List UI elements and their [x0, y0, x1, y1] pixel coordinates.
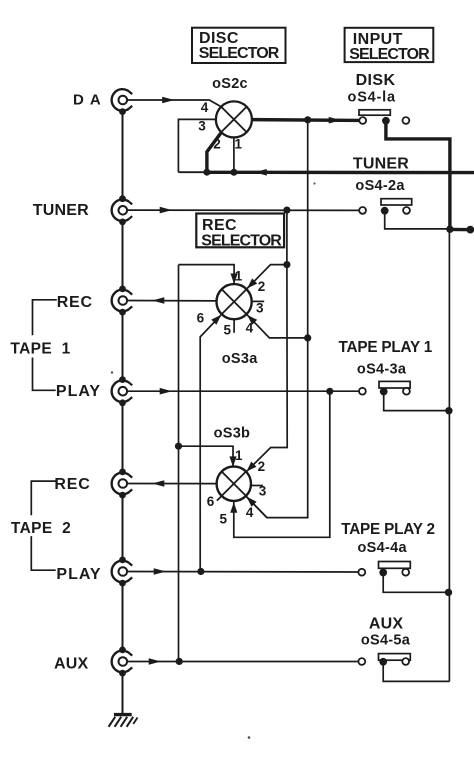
- junction bus / tuner switch + output: [446, 226, 453, 233]
- junction S2c output / disc feed: [304, 116, 311, 123]
- S3b pin 6 stub: [217, 496, 222, 501]
- switch S4-4a (TAPE PLAY 2) input terminal: [358, 569, 365, 576]
- S3a pin 1 wire from left bus: [179, 265, 235, 284]
- speck artifact: [111, 371, 113, 373]
- svg-text:1: 1: [235, 448, 243, 463]
- ground bus wire TUNER to REC(tape1): [122, 222, 124, 289]
- arrow on TUNER return line: [255, 169, 267, 176]
- junction PLAY2 / S3a pin6 branch: [197, 568, 204, 575]
- svg-text:4: 4: [246, 321, 254, 336]
- arrow S3b pin 5 (up into wiper): [230, 502, 237, 513]
- arrow S3a pin 2: [247, 278, 257, 288]
- S3a pin 3 stub: [252, 300, 265, 302]
- wire TUNER return line (bottom of S2c, thick with left arrow): [178, 171, 208, 173]
- S2c pin 1 wire: [233, 137, 235, 172]
- svg-text:REC: REC: [57, 294, 93, 311]
- S3a pin 5 stub: [233, 319, 235, 333]
- junction S2c pin1 / tuner line: [230, 169, 237, 176]
- junction tuner branch / S3a pin2: [283, 261, 290, 268]
- speck artifact: [313, 182, 315, 184]
- svg-text:TUNER: TUNER: [353, 155, 409, 172]
- arrow on S2c output wire: [329, 117, 341, 124]
- switch S4-2a (TUNER) input terminal: [359, 207, 366, 214]
- connector jack TUNER (phono jack, shell to ground bus): [112, 195, 133, 225]
- svg-text:3: 3: [198, 118, 206, 133]
- wire DISK switch to output bus (thick): [386, 122, 450, 229]
- svg-text:SELECTOR: SELECTOR: [349, 46, 430, 63]
- junction tuner wire branch: [283, 207, 290, 214]
- bracket tape2 REC/PLAY (lower): [31, 536, 55, 570]
- svg-text:5: 5: [220, 511, 228, 526]
- svg-text:DISK: DISK: [356, 72, 396, 89]
- switch S4-4a (TAPE PLAY 2) open throw terminal: [402, 569, 409, 576]
- box INPUT SELECTOR: [345, 28, 434, 62]
- switch S4-5a (AUX) input terminal: [358, 658, 365, 665]
- ground bus wire REC to PLAY (tape1): [122, 312, 124, 380]
- wire AUX jack to S4-5a: [127, 661, 359, 663]
- switch S4-3a (TAPE PLAY 1) input terminal: [359, 388, 366, 395]
- rotary switch S2c: [216, 101, 252, 137]
- arrow S3b pin 4: [247, 497, 257, 507]
- rotary switch S3a: [217, 284, 252, 319]
- svg-text:SELECTOR: SELECTOR: [199, 45, 280, 62]
- S3a pin 4 wire from disc feed: [247, 315, 308, 338]
- wire TUNER branch vertical (to S3a pin2 / S3b pin2): [286, 210, 288, 265]
- svg-text:PLAY: PLAY: [56, 566, 101, 583]
- ground bus wire AUX to ground: [122, 673, 124, 714]
- switch S4-5a (AUX) common contact (filled): [379, 658, 387, 666]
- arrow on TUNER wire: [160, 207, 172, 214]
- switch S4-1a (DISK, closed) contact bar: [359, 110, 390, 115]
- connector jack TAPE1 PLAY (phono jack, shell to ground bus): [112, 376, 133, 406]
- S3b pin 4 wire from disc feed: [246, 497, 267, 518]
- svg-text:oS4-la: oS4-la: [348, 89, 396, 105]
- wire S4-2a common to bus: [385, 212, 450, 229]
- svg-text:oS4-5a: oS4-5a: [361, 633, 411, 649]
- svg-text:4: 4: [201, 100, 209, 115]
- wire disc selector output feed (vertical to S3a pin4 / S3b pin4): [246, 120, 307, 518]
- svg-text:2: 2: [258, 279, 266, 294]
- arrow on REC2 wire (toward jack): [152, 480, 164, 487]
- wire REC2 jack to S3b wiper: [127, 483, 217, 485]
- S2c pin 3 wire to left: [178, 119, 216, 172]
- wire S4-5a common to bus: [383, 664, 449, 682]
- svg-text:oS3a: oS3a: [222, 351, 258, 367]
- S3a pin 2 wire from tuner branch: [247, 265, 287, 289]
- svg-text:3: 3: [259, 483, 267, 498]
- junction bus / tape play 2: [445, 589, 452, 596]
- svg-text:oS4-2a: oS4-2a: [355, 178, 405, 194]
- arrow S3b pin 2: [246, 462, 256, 472]
- arrow on PLAY1 wire: [160, 388, 172, 395]
- arrow S3a pin 1 (down into wiper): [231, 274, 238, 285]
- ground symbol: [109, 715, 138, 727]
- svg-text:TAPE 2: TAPE 2: [11, 520, 71, 537]
- switch S4-3a (TAPE PLAY 1) common contact (filled): [380, 388, 388, 396]
- svg-text:1: 1: [235, 136, 243, 151]
- arrow S3a pin 4: [247, 315, 257, 325]
- svg-text:AUX: AUX: [54, 655, 89, 672]
- box REC SELECTOR: [196, 214, 284, 248]
- ground bus wire REC2 to PLAY2: [122, 495, 124, 560]
- box DISC SELECTOR: [192, 28, 286, 63]
- wire S4-3a common to bus: [384, 393, 449, 411]
- wire TUNER jack to S4-2a: [127, 209, 359, 211]
- svg-text:TAPE PLAY 2: TAPE PLAY 2: [341, 521, 435, 538]
- wire PLAY2 jack to S4-4a: [127, 571, 359, 574]
- svg-text:TUNER: TUNER: [33, 202, 89, 219]
- switch S4-2a (TUNER) common contact (filled): [381, 207, 389, 215]
- S3b pin 3 stub: [251, 485, 263, 487]
- svg-text:oS3b: oS3b: [214, 425, 251, 441]
- svg-text:oS4-3a: oS4-3a: [357, 361, 407, 377]
- svg-text:oS4-4a: oS4-4a: [358, 540, 408, 556]
- bracket tape1 REC/PLAY (upper): [33, 300, 57, 335]
- connector jack TAPE2 PLAY (phono jack, shell to ground bus): [112, 557, 133, 587]
- terminal dot on output stub: [466, 226, 474, 234]
- connector jack TAPE2 REC (phono jack, shell to ground bus): [112, 469, 133, 499]
- S2c pin 2 wire (thick): [207, 132, 222, 172]
- arrow on DA wire: [162, 97, 174, 104]
- wire PLAY1 jack to S4-3a: [127, 390, 359, 392]
- wire output stub to right edge (thick): [450, 228, 474, 232]
- svg-text:2: 2: [258, 459, 266, 474]
- bracket tape1 REC/PLAY (lower): [33, 358, 56, 391]
- switch S4-5a (AUX) open throw terminal: [402, 658, 409, 665]
- connector jack DA (phono jack, shell to ground bus): [112, 89, 133, 115]
- wire REC1 jack to S3a wiper: [127, 300, 217, 302]
- switch S4-1a (DISK, closed) common contact (filled): [382, 117, 390, 125]
- svg-text:TAPE PLAY 1: TAPE PLAY 1: [339, 339, 433, 356]
- connector jack AUX (phono jack, shell to ground bus): [112, 647, 133, 677]
- arrow S3a pin 6: [211, 315, 221, 325]
- switch S4-4a (TAPE PLAY 2) contact bar: [379, 562, 411, 569]
- svg-text:oS2c: oS2c: [212, 76, 248, 92]
- bracket tape2 REC/PLAY (upper): [31, 481, 55, 515]
- junction PLAY1 / S3b pin5 branch: [326, 388, 333, 395]
- arrow on REC1 wire (toward jack): [152, 297, 164, 304]
- junction bus / tape play 1: [445, 407, 452, 414]
- wire DA jack to S2c pin 4: [127, 100, 222, 107]
- junction disc feed / S3a pin4: [304, 334, 311, 341]
- S3a pin 6 wire down to PLAY2: [200, 314, 222, 571]
- svg-text:REC: REC: [54, 476, 90, 493]
- svg-text:4: 4: [246, 505, 254, 520]
- svg-text:AUX: AUX: [369, 616, 404, 633]
- S3b pin 1 wire: [179, 446, 234, 467]
- svg-text:1: 1: [235, 269, 243, 284]
- wire S4-4a common to bus: [383, 574, 448, 592]
- switch S4-3a (TAPE PLAY 1) contact bar: [379, 381, 410, 388]
- wire left bus: S3a pin1 down to AUX: [178, 265, 180, 662]
- svg-text:5: 5: [223, 323, 231, 338]
- switch S4-1a (DISK, closed) open throw terminal: [403, 117, 410, 124]
- switch S4-5a (AUX) contact bar: [379, 654, 411, 661]
- connector jack TAPE1 REC (phono jack, shell to ground bus): [112, 286, 133, 316]
- wire S2c output to DISK switch (thick): [252, 118, 360, 122]
- svg-text:6: 6: [197, 311, 205, 326]
- svg-text:D A: D A: [73, 91, 102, 108]
- rotary switch S3b: [217, 467, 251, 501]
- junction AUX / left bus: [176, 658, 183, 665]
- arrow on PLAY2 wire: [154, 568, 166, 575]
- switch S4-4a (TAPE PLAY 2) common contact (filled): [379, 569, 387, 577]
- ground bus wire PLAY1 to REC2: [122, 403, 124, 472]
- switch S4-3a (TAPE PLAY 1) open throw terminal: [403, 388, 410, 395]
- svg-text:PLAY: PLAY: [56, 383, 101, 400]
- arrow on AUX wire: [149, 658, 161, 665]
- speck artifact: [248, 736, 251, 739]
- S3b pin 5 wire from PLAY1: [234, 391, 330, 537]
- arrow S3b pin 1: [229, 456, 236, 467]
- junction S2c pin2 / tuner line: [203, 169, 210, 176]
- ground bus wire PLAY2 to AUX: [122, 583, 124, 650]
- wire output bus (right vertical): [448, 229, 450, 681]
- junction left bus / S3b pin1: [175, 443, 182, 450]
- switch S4-2a (TUNER) contact bar: [381, 199, 412, 205]
- switch S4-2a (TUNER) open throw terminal: [403, 207, 410, 214]
- ground bus wire DA to TUNER: [122, 112, 124, 199]
- svg-text:TAPE 1: TAPE 1: [10, 340, 70, 357]
- svg-text:3: 3: [256, 301, 264, 316]
- svg-text:6: 6: [207, 494, 215, 509]
- switch S4-1a (DISK, closed) input terminal: [359, 117, 366, 124]
- svg-text:SELECTOR: SELECTOR: [201, 233, 282, 250]
- svg-text:2: 2: [213, 137, 221, 152]
